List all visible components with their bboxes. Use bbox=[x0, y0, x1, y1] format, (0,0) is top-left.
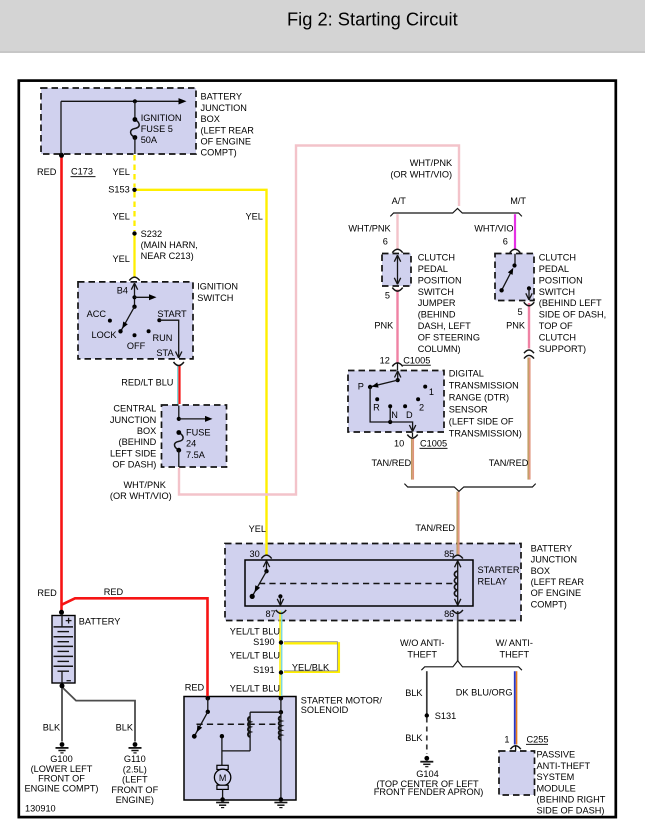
svg-text:(LEFT REAR: (LEFT REAR bbox=[201, 125, 255, 135]
svg-text:OF ENGINE: OF ENGINE bbox=[531, 588, 582, 598]
svg-text:C1005: C1005 bbox=[420, 438, 447, 448]
svg-text:5: 5 bbox=[517, 307, 522, 317]
svg-text:1: 1 bbox=[429, 387, 434, 397]
svg-text:G110: G110 bbox=[124, 754, 146, 764]
svg-text:RED/LT BLU: RED/LT BLU bbox=[121, 378, 173, 388]
svg-text:S153: S153 bbox=[108, 185, 129, 195]
svg-text:S190: S190 bbox=[253, 637, 274, 647]
svg-text:NEAR C213): NEAR C213) bbox=[141, 251, 194, 261]
svg-text:JUMPER: JUMPER bbox=[418, 298, 456, 308]
svg-text:BOX: BOX bbox=[201, 114, 220, 124]
svg-text:86: 86 bbox=[444, 609, 454, 619]
svg-text:30: 30 bbox=[249, 549, 259, 559]
svg-text:(LEFT SIDE OF: (LEFT SIDE OF bbox=[449, 417, 514, 427]
svg-text:R: R bbox=[373, 403, 380, 413]
svg-text:POSITION: POSITION bbox=[539, 275, 583, 285]
svg-text:(OR WHT/VIO): (OR WHT/VIO) bbox=[110, 491, 172, 501]
svg-text:SWITCH: SWITCH bbox=[197, 293, 233, 303]
svg-text:YEL/LT BLU: YEL/LT BLU bbox=[230, 627, 280, 637]
svg-text:FRONT OF: FRONT OF bbox=[38, 774, 85, 784]
svg-text:B4: B4 bbox=[117, 286, 128, 296]
svg-text:FRONT OF: FRONT OF bbox=[111, 785, 158, 795]
svg-text:BLK: BLK bbox=[405, 733, 423, 743]
svg-text:JUNCTION: JUNCTION bbox=[110, 415, 156, 425]
svg-text:OF DASH): OF DASH) bbox=[112, 460, 156, 470]
svg-text:STA: STA bbox=[156, 348, 174, 358]
svg-text:D: D bbox=[406, 410, 413, 420]
svg-text:FUSE: FUSE bbox=[186, 427, 211, 437]
svg-text:(2.5L): (2.5L) bbox=[123, 764, 147, 774]
svg-text:6: 6 bbox=[383, 236, 388, 246]
svg-text:SIDE OF DASH,: SIDE OF DASH, bbox=[539, 310, 606, 320]
svg-text:START: START bbox=[157, 309, 187, 319]
svg-text:S131: S131 bbox=[435, 711, 456, 721]
svg-text:RANGE (DTR): RANGE (DTR) bbox=[449, 393, 509, 403]
svg-text:SUPPORT): SUPPORT) bbox=[539, 344, 586, 354]
svg-text:W/O ANTI-: W/O ANTI- bbox=[400, 638, 444, 648]
svg-text:OFF: OFF bbox=[127, 341, 146, 351]
svg-text:RED: RED bbox=[104, 587, 124, 597]
svg-text:SENSOR: SENSOR bbox=[449, 405, 488, 415]
svg-text:RED: RED bbox=[185, 682, 205, 692]
svg-text:OF ENGINE: OF ENGINE bbox=[201, 137, 252, 147]
svg-text:24: 24 bbox=[186, 439, 196, 449]
svg-text:THEFT: THEFT bbox=[499, 649, 529, 659]
svg-text:SOLENOID: SOLENOID bbox=[301, 705, 349, 715]
svg-text:2: 2 bbox=[419, 403, 424, 413]
svg-text:COMPT): COMPT) bbox=[531, 599, 567, 609]
svg-text:(BEHIND LEFT: (BEHIND LEFT bbox=[539, 298, 602, 308]
svg-text:G100: G100 bbox=[50, 754, 72, 764]
svg-text:YEL: YEL bbox=[249, 524, 266, 534]
svg-text:PEDAL: PEDAL bbox=[418, 264, 448, 274]
svg-text:87: 87 bbox=[265, 609, 275, 619]
svg-text:CLUTCH: CLUTCH bbox=[539, 332, 576, 342]
svg-text:ANTI-THEFT: ANTI-THEFT bbox=[537, 761, 591, 771]
svg-text:M: M bbox=[219, 773, 227, 783]
svg-text:WHT/PNK: WHT/PNK bbox=[348, 224, 391, 234]
svg-text:BLK: BLK bbox=[43, 722, 61, 732]
svg-text:COLUMN): COLUMN) bbox=[418, 344, 461, 354]
svg-text:130910: 130910 bbox=[25, 803, 56, 813]
svg-text:TAN/RED: TAN/RED bbox=[372, 458, 412, 468]
svg-text:(BEHIND RIGHT: (BEHIND RIGHT bbox=[537, 795, 606, 805]
svg-text:SWITCH: SWITCH bbox=[418, 287, 454, 297]
svg-text:COMPT): COMPT) bbox=[201, 148, 237, 158]
svg-text:BATTERY: BATTERY bbox=[201, 92, 243, 102]
svg-text:C255: C255 bbox=[527, 734, 549, 744]
svg-text:BOX: BOX bbox=[531, 566, 550, 576]
svg-text:S232: S232 bbox=[141, 229, 162, 239]
svg-text:BOX: BOX bbox=[137, 426, 156, 436]
svg-text:YEL/LT BLU: YEL/LT BLU bbox=[230, 650, 280, 660]
svg-text:10: 10 bbox=[394, 438, 404, 448]
svg-text:FRONT FENDER APRON): FRONT FENDER APRON) bbox=[374, 787, 484, 797]
svg-text:IGNITION: IGNITION bbox=[141, 113, 182, 123]
svg-text:TRANSMISSION: TRANSMISSION bbox=[449, 381, 519, 391]
svg-text:ACC: ACC bbox=[87, 309, 107, 319]
svg-text:6: 6 bbox=[503, 236, 508, 246]
svg-text:(LEFT REAR: (LEFT REAR bbox=[531, 577, 585, 587]
svg-text:POSITION: POSITION bbox=[418, 275, 462, 285]
svg-text:LOCK: LOCK bbox=[92, 330, 118, 340]
svg-text:IGNITION: IGNITION bbox=[197, 282, 238, 292]
svg-text:BATTERY: BATTERY bbox=[531, 543, 573, 553]
svg-text:CLUTCH: CLUTCH bbox=[539, 253, 576, 263]
svg-text:50A: 50A bbox=[141, 135, 158, 145]
svg-text:JUNCTION: JUNCTION bbox=[531, 555, 577, 565]
svg-text:M/T: M/T bbox=[510, 196, 526, 206]
svg-text:JUNCTION: JUNCTION bbox=[201, 103, 247, 113]
svg-text:SWITCH: SWITCH bbox=[539, 287, 575, 297]
svg-text:STARTER: STARTER bbox=[478, 565, 520, 575]
svg-text:SYSTEM: SYSTEM bbox=[537, 772, 575, 782]
svg-text:RELAY: RELAY bbox=[478, 576, 507, 586]
svg-text:RUN: RUN bbox=[153, 333, 173, 343]
svg-text:WHT/VIO: WHT/VIO bbox=[474, 224, 513, 234]
svg-text:BLK: BLK bbox=[116, 722, 134, 732]
svg-text:DK BLU/ORG: DK BLU/ORG bbox=[456, 687, 513, 697]
svg-text:5: 5 bbox=[385, 290, 390, 300]
svg-text:BATTERY: BATTERY bbox=[79, 617, 121, 627]
svg-text:YEL/LT BLU: YEL/LT BLU bbox=[230, 684, 280, 694]
svg-text:SIDE OF DASH): SIDE OF DASH) bbox=[537, 806, 605, 816]
svg-text:TAN/RED: TAN/RED bbox=[489, 458, 529, 468]
svg-text:ENGINE COMPT): ENGINE COMPT) bbox=[24, 783, 98, 793]
svg-text:(LEFT: (LEFT bbox=[122, 775, 148, 785]
svg-text:(BEHIND: (BEHIND bbox=[119, 437, 157, 447]
svg-text:TOP OF: TOP OF bbox=[539, 321, 573, 331]
svg-text:ENGINE): ENGINE) bbox=[116, 795, 154, 805]
svg-text:(OR WHT/VIO): (OR WHT/VIO) bbox=[390, 170, 452, 180]
svg-text:G104: G104 bbox=[416, 769, 438, 779]
svg-text:YEL: YEL bbox=[246, 212, 263, 222]
svg-text:(MAIN HARN,: (MAIN HARN, bbox=[141, 240, 198, 250]
svg-text:A/T: A/T bbox=[392, 196, 407, 206]
svg-text:12: 12 bbox=[380, 355, 390, 365]
svg-text:C173: C173 bbox=[71, 167, 93, 177]
svg-text:THEFT: THEFT bbox=[407, 649, 437, 659]
svg-text:WHT/PNK: WHT/PNK bbox=[410, 158, 453, 168]
svg-text:FUSE 5: FUSE 5 bbox=[141, 124, 173, 134]
svg-text:TRANSMISSION): TRANSMISSION) bbox=[449, 429, 522, 439]
svg-text:YEL: YEL bbox=[113, 212, 130, 222]
svg-text:CLUTCH: CLUTCH bbox=[418, 253, 455, 263]
svg-text:STARTER MOTOR/: STARTER MOTOR/ bbox=[301, 696, 383, 706]
svg-text:YEL: YEL bbox=[113, 254, 130, 264]
svg-text:Fig 2: Starting Circuit: Fig 2: Starting Circuit bbox=[287, 9, 458, 30]
svg-text:OF STEERING: OF STEERING bbox=[418, 332, 480, 342]
svg-text:PNK: PNK bbox=[374, 320, 394, 330]
svg-text:PASSIVE: PASSIVE bbox=[537, 750, 576, 760]
svg-text:85: 85 bbox=[444, 549, 454, 559]
svg-text:WHT/PNK: WHT/PNK bbox=[124, 480, 167, 490]
svg-text:PNK: PNK bbox=[506, 320, 526, 330]
svg-text:(BEHIND: (BEHIND bbox=[418, 310, 456, 320]
svg-text:TAN/RED: TAN/RED bbox=[415, 523, 455, 533]
svg-text:RED: RED bbox=[37, 588, 57, 598]
svg-text:YEL: YEL bbox=[113, 167, 130, 177]
svg-text:P: P bbox=[358, 381, 364, 391]
svg-text:C1005: C1005 bbox=[403, 355, 430, 365]
svg-text:YEL/BLK: YEL/BLK bbox=[292, 662, 330, 672]
svg-text:1: 1 bbox=[504, 734, 509, 744]
svg-text:CENTRAL: CENTRAL bbox=[113, 404, 156, 414]
svg-text:PEDAL: PEDAL bbox=[539, 264, 569, 274]
svg-text:LEFT SIDE: LEFT SIDE bbox=[110, 448, 156, 458]
svg-text:RED: RED bbox=[37, 167, 57, 177]
svg-text:MODULE: MODULE bbox=[537, 783, 576, 793]
svg-text:DASH, LEFT: DASH, LEFT bbox=[418, 321, 471, 331]
svg-text:N: N bbox=[391, 410, 398, 420]
svg-text:BLK: BLK bbox=[405, 688, 423, 698]
svg-text:W/ ANTI-: W/ ANTI- bbox=[496, 638, 533, 648]
svg-text:7.5A: 7.5A bbox=[186, 450, 206, 460]
svg-text:DIGITAL: DIGITAL bbox=[449, 369, 484, 379]
svg-text:S191: S191 bbox=[253, 665, 274, 675]
svg-text:(LOWER LEFT: (LOWER LEFT bbox=[31, 764, 93, 774]
